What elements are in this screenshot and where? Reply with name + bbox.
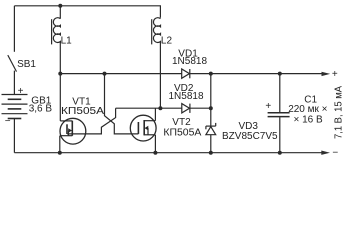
wire node B line left of VD2 bbox=[116, 107, 182, 109]
svg-text:× 16 В: × 16 В bbox=[294, 115, 324, 126]
svg-text:L2: L2 bbox=[161, 36, 173, 47]
wire mid rail left of VD1 bbox=[60, 73, 181, 75]
node dot L1 top bbox=[58, 4, 62, 8]
svg-text:SB1: SB1 bbox=[17, 59, 36, 70]
capacitor C1 plates bbox=[268, 113, 290, 117]
wire left vertical to switch bbox=[13, 6, 15, 52]
output arrow plus rail bbox=[322, 72, 331, 76]
inductor L2 coil bbox=[152, 18, 161, 45]
wire node A drop to VT2 gate (staircase) bbox=[105, 74, 139, 134]
wire VT1 drain from node A bbox=[59, 74, 61, 121]
diode VD1 bbox=[182, 69, 190, 78]
svg-text:КП505А: КП505А bbox=[163, 127, 201, 138]
svg-text:КП505А: КП505А bbox=[61, 106, 104, 117]
node dot VD1 cathode junction bbox=[209, 72, 213, 76]
svg-text:+: + bbox=[265, 101, 271, 112]
wire battery to bottom rail bbox=[13, 119, 15, 153]
wire node B line right of VD2 bbox=[190, 107, 211, 109]
node dot VT2 source ground bbox=[153, 151, 157, 155]
wire mid rail right of VD1 to output arrow bbox=[190, 73, 322, 75]
node dot C1 top bbox=[278, 72, 282, 76]
node dot node A gate drop bbox=[103, 72, 107, 76]
transistor VT1 bbox=[60, 118, 86, 144]
svg-text:−: − bbox=[332, 148, 338, 158]
node dot VT1 source ground bbox=[58, 151, 62, 155]
wire VD3 branch vertical bbox=[210, 74, 212, 153]
wire L2 bottom lead crossing mid rail down to node B bbox=[159, 43, 161, 108]
output arrow minus rail bbox=[321, 151, 330, 155]
wire C1 bottom lead bbox=[279, 117, 281, 153]
node dot VD2 cathode junction bbox=[209, 106, 213, 110]
svg-text:L1: L1 bbox=[61, 36, 73, 47]
wire bottom rail bbox=[14, 152, 322, 154]
wire VT1 source to bottom rail bbox=[59, 136, 61, 153]
node dot L2 bottom node B bbox=[158, 106, 162, 110]
wire C1 top lead bbox=[279, 74, 281, 112]
wire top rail from left corner to L2 corner bbox=[14, 6, 160, 18]
wire VT2 drain up to node B line bbox=[154, 108, 156, 121]
svg-text:3,6 В: 3,6 В bbox=[29, 104, 53, 115]
wire switch to battery bbox=[13, 71, 15, 95]
wire node B corner down to VT1 gate (staircase) bbox=[67, 108, 116, 134]
switch SB1 blade bbox=[8, 55, 17, 72]
wire L1 bottom lead to mid rail bbox=[59, 43, 61, 74]
wire L1 top lead bbox=[59, 6, 61, 19]
node dot L1 bottom / node A bbox=[58, 72, 62, 76]
svg-text:220 мк ×: 220 мк × bbox=[288, 104, 327, 115]
svg-text:−: − bbox=[5, 116, 11, 127]
node dot VD3 ground bbox=[209, 151, 213, 155]
wire VT2 source to bottom rail bbox=[154, 135, 156, 153]
svg-text:+: + bbox=[18, 86, 24, 97]
inductor L1 coil bbox=[52, 18, 61, 45]
zener diode VD3 bbox=[206, 123, 216, 135]
svg-text:BZV85C7V5: BZV85C7V5 bbox=[222, 131, 278, 142]
svg-text:7,1 В, 15 мА: 7,1 В, 15 мА bbox=[333, 86, 344, 139]
svg-text:+: + bbox=[332, 69, 338, 80]
battery GB1 plates bbox=[2, 95, 28, 119]
svg-text:1N5818: 1N5818 bbox=[172, 56, 207, 67]
svg-text:VT2: VT2 bbox=[172, 117, 191, 128]
transistor VT2 bbox=[130, 115, 156, 141]
svg-text:1N5818: 1N5818 bbox=[169, 91, 204, 102]
node dot C1 ground bbox=[278, 151, 282, 155]
diode VD2 bbox=[182, 104, 190, 113]
